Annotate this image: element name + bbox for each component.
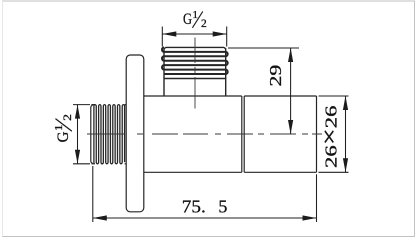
svg-text:29: 29 [266, 65, 285, 87]
dimension 29 [228, 48, 299, 134]
top port thread G1/2 outline [164, 47, 226, 96]
dimension G1/2 top [162, 9, 226, 47]
centerline horizontal [87, 133, 322, 135]
svg-text:5: 5 [218, 197, 227, 217]
groove between body and square [242, 96, 244, 172]
square section 26x26 [244, 96, 316, 172]
dimension 75.5 [93, 166, 317, 222]
valve body [144, 96, 242, 172]
centerline vertical of top port [194, 38, 196, 109]
wall flange [126, 55, 144, 212]
left thread G1/2 coil [94, 105, 125, 164]
svg-text:26×26: 26×26 [317, 106, 342, 169]
left thread G1/2 outline [91, 105, 126, 164]
svg-text:75.: 75. [182, 197, 206, 217]
svg-text:G: G [183, 11, 192, 28]
svg-text:2: 2 [201, 18, 207, 30]
svg-text:1: 1 [193, 9, 199, 21]
dimension G1/2 left [52, 105, 90, 164]
top port thread G1/2 coil [162, 47, 228, 74]
dimension 26x26 [317, 96, 349, 172]
